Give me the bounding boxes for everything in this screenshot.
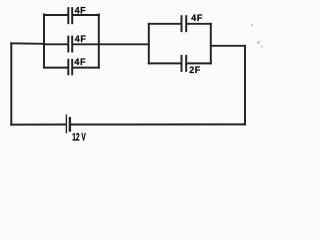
svg-text:12 V: 12 V [72,131,86,143]
svg-text:4F: 4F [191,13,203,23]
svg-text:2F: 2F [189,65,201,75]
svg-text:4F: 4F [74,57,86,67]
svg-text:4F: 4F [75,6,87,16]
svg-text:4F: 4F [75,34,87,44]
